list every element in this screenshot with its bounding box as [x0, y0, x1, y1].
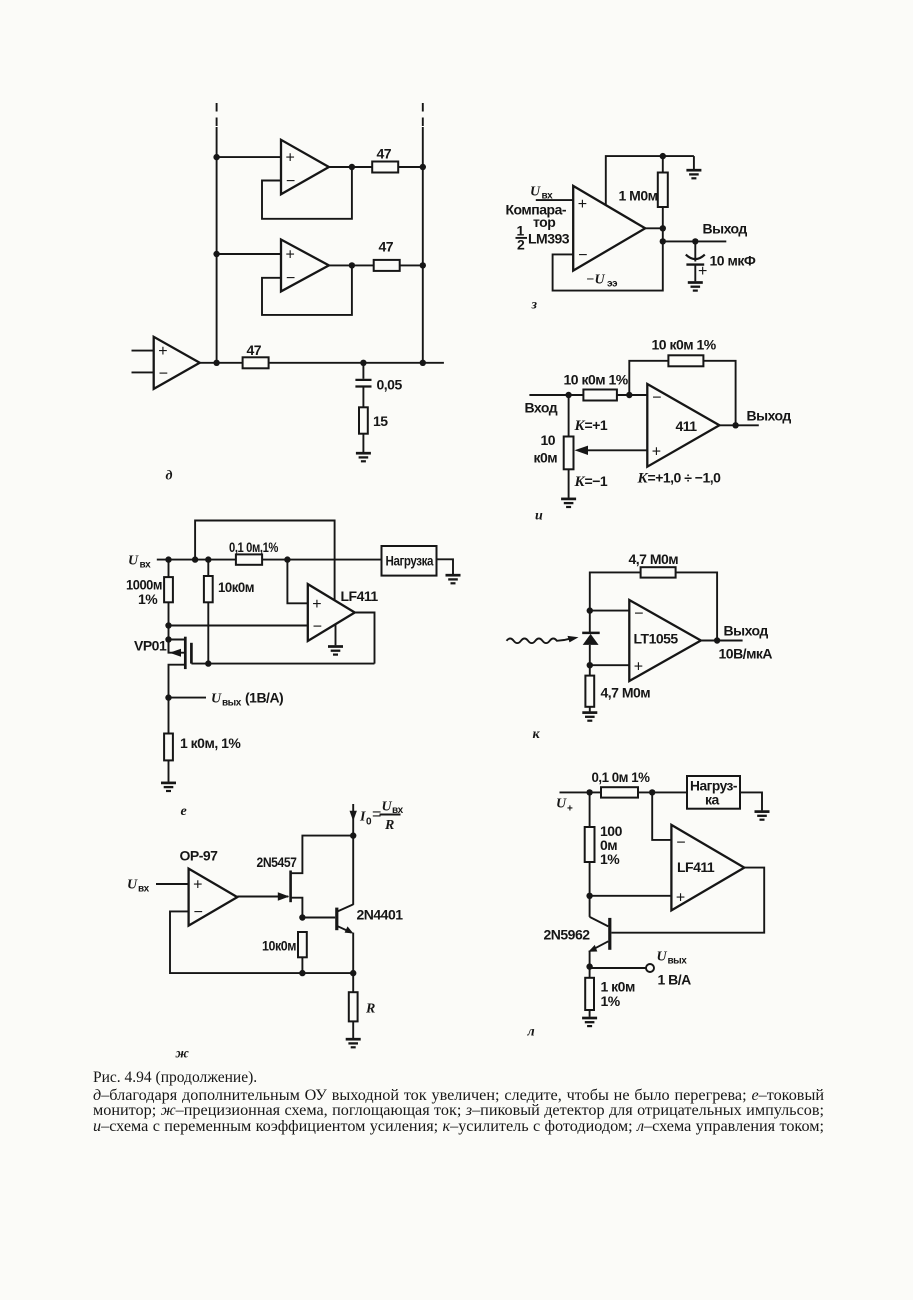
- gate node junction: [205, 660, 211, 666]
- ground: [582, 1018, 597, 1026]
- left bus wire (dashed top): [216, 103, 218, 127]
- svg-text:15: 15: [373, 413, 388, 429]
- wire to potentiometer: [568, 395, 570, 437]
- junction input: [565, 392, 571, 398]
- resistor 1 kOhm 1%: [164, 734, 173, 761]
- wire output to gate: [237, 896, 288, 898]
- svg-text:U: U: [530, 185, 541, 200]
- junction bottom rail: [299, 970, 305, 976]
- load box Nagruz-ka: [687, 776, 740, 809]
- svg-text:+: +: [312, 596, 321, 613]
- resistor 1 kOhm 1%: [585, 978, 594, 1010]
- wire 100 Ohm lead: [168, 560, 170, 578]
- resistor 10k feedback: [668, 355, 703, 366]
- wire plus input: [590, 664, 630, 666]
- svg-text:−: −: [286, 270, 295, 287]
- svg-text:LM393: LM393: [528, 231, 570, 247]
- svg-text:−: −: [286, 173, 295, 190]
- svg-text:47: 47: [379, 238, 394, 254]
- resistor 10 kOhm: [298, 932, 307, 957]
- wire emitter down: [352, 933, 354, 993]
- svg-text:и: и: [535, 509, 543, 524]
- wire emitter down: [589, 951, 591, 978]
- wire output: [701, 640, 743, 642]
- svg-text:−: −: [578, 247, 587, 264]
- wire load to ground: [437, 559, 454, 574]
- junction: [586, 789, 592, 795]
- base bar: [335, 908, 338, 931]
- source lead: [169, 639, 186, 641]
- transistor 2N5457 (JFET): [257, 836, 354, 918]
- wire minus input: [590, 610, 630, 612]
- wire output bus: [269, 362, 444, 364]
- wire feedback loop: [553, 228, 663, 290]
- wire feedback up: [590, 572, 641, 610]
- junction output: [714, 637, 720, 643]
- wire bottom rail: [302, 972, 353, 974]
- junction sense node: [284, 556, 290, 562]
- channel bar: [289, 871, 292, 903]
- resistor 4,7 MOhm lower: [585, 676, 594, 707]
- junction: [660, 153, 666, 159]
- wire Uvyx tap: [590, 967, 646, 969]
- svg-text:вх: вх: [138, 884, 150, 895]
- svg-text:0,1 0м,1%: 0,1 0м,1%: [229, 539, 279, 555]
- wire output feedback to base: [612, 868, 765, 933]
- junction loop tap: [192, 556, 198, 562]
- wire A1 output: [329, 166, 372, 168]
- transistor 2N5962 (NPN mirrored): [544, 917, 610, 952]
- junction anode node: [587, 662, 593, 668]
- ground: [561, 499, 576, 507]
- wire load to ground: [740, 792, 762, 810]
- wire: [362, 387, 364, 408]
- svg-text:U: U: [657, 950, 668, 965]
- svg-text:2N4401: 2N4401: [357, 907, 404, 923]
- svg-text:Нагрузка: Нагрузка: [386, 553, 434, 569]
- junction base node: [299, 914, 305, 920]
- wire feedback: [170, 911, 302, 973]
- light arrow squiggle: [507, 638, 572, 643]
- junction: [349, 262, 355, 268]
- junction 10k tap: [205, 556, 211, 562]
- svg-text:1 к0м, 1%: 1 к0м, 1%: [180, 735, 241, 751]
- svg-text:вых: вых: [668, 956, 688, 967]
- svg-text:Выход: Выход: [724, 623, 769, 639]
- svg-text:10 к0м 1%: 10 к0м 1%: [652, 337, 717, 353]
- gate arrowhead: [278, 892, 290, 900]
- junction node: [360, 360, 366, 366]
- svg-text:−: −: [313, 618, 322, 635]
- wire A1 +input: [217, 156, 281, 158]
- cathode lead: [589, 611, 591, 633]
- wire wiper to +input: [584, 449, 647, 451]
- drain lead: [291, 836, 354, 874]
- left bus wire: [216, 127, 218, 363]
- resistor 0,1 Ohm 1%: [236, 554, 262, 564]
- body lead jog: [169, 640, 186, 653]
- ground: [688, 283, 703, 291]
- svg-text:+: +: [676, 889, 685, 906]
- caption block: [93, 1070, 824, 1135]
- potentiometer 10 kOhm: [564, 437, 574, 470]
- svg-text:10 к0м 1%: 10 к0м 1%: [564, 372, 629, 388]
- junction 100 Ohm tap: [165, 556, 171, 562]
- svg-text:10к0м: 10к0м: [262, 938, 296, 954]
- wire to ground: [352, 1021, 354, 1038]
- emitter arrowhead: [588, 945, 597, 952]
- svg-text:I: I: [359, 810, 366, 825]
- svg-text:к0м: к0м: [534, 450, 558, 466]
- resistor 47 (middle): [374, 260, 400, 271]
- ground: [346, 1039, 361, 1047]
- svg-text:2: 2: [517, 237, 525, 253]
- svg-text:−: −: [159, 365, 168, 382]
- resistor 47 (top): [372, 162, 398, 173]
- op-amp LF411: [308, 584, 355, 641]
- junction plus node: [586, 893, 592, 899]
- collector lead: [337, 904, 353, 911]
- capacitor 0,05: [355, 380, 371, 387]
- op-amp LT1055: [629, 600, 701, 681]
- ground: [582, 713, 597, 721]
- svg-text:+: +: [698, 263, 707, 280]
- wire: [398, 166, 423, 168]
- wire: [638, 791, 687, 793]
- junction emitter node: [586, 963, 592, 969]
- junction: [213, 154, 219, 160]
- wire Uvyx tap: [169, 697, 207, 699]
- wire output: [645, 227, 663, 229]
- wire minus input: [652, 792, 671, 840]
- svg-text:1 В/А: 1 В/А: [658, 972, 692, 988]
- collector lead: [590, 917, 609, 927]
- transistor VP01 (p-MOSFET): [134, 636, 375, 697]
- wiper arrowhead: [575, 446, 589, 455]
- wire to resistor: [589, 665, 591, 675]
- current arrow into rail: [350, 804, 357, 836]
- load box Nagruzka: [382, 546, 437, 576]
- svg-text:10к0м: 10к0м: [218, 579, 254, 595]
- wire rail down: [352, 836, 354, 905]
- svg-text:10: 10: [541, 432, 556, 448]
- svg-text:47: 47: [247, 342, 262, 358]
- junction vyhod node: [660, 238, 666, 244]
- svg-text:+: +: [193, 877, 202, 894]
- gate bar: [190, 643, 193, 664]
- wire: [617, 394, 647, 396]
- junction Uvyx node: [165, 694, 171, 700]
- resistor 10k input: [583, 390, 617, 401]
- op-amp 411: [647, 384, 719, 467]
- resistor 100 Ohm 1%: [585, 827, 595, 862]
- resistor 1 MOhm: [658, 173, 668, 208]
- emitter lead: [591, 941, 609, 950]
- svg-text:U: U: [211, 692, 222, 707]
- svg-text:LT1055: LT1055: [634, 631, 679, 647]
- wire minus input: [169, 625, 308, 627]
- svg-text:LF411: LF411: [341, 588, 379, 604]
- svg-text:2N5962: 2N5962: [544, 927, 591, 943]
- emitter lead: [337, 926, 352, 933]
- svg-text:U: U: [128, 554, 139, 569]
- wire A2 +input: [217, 253, 281, 255]
- emitter arrowhead: [345, 926, 354, 933]
- svg-text:0,05: 0,05: [377, 377, 403, 393]
- junction cap tap: [692, 238, 698, 244]
- svg-text:R: R: [384, 818, 394, 833]
- wire: [400, 264, 423, 266]
- wire top rail: [157, 559, 236, 561]
- wire: [168, 602, 170, 652]
- capacitor 10 mkF (electrolytic): [686, 255, 705, 265]
- junction minus node: [626, 392, 632, 398]
- resistor 10 kOhm: [204, 576, 213, 602]
- wire A3 -input: [132, 371, 154, 373]
- source lead: [291, 898, 303, 918]
- svg-text:д: д: [166, 469, 173, 484]
- junction output: [660, 225, 666, 231]
- resistor 0,1 Ohm 1%: [601, 787, 638, 797]
- svg-text:е: е: [181, 804, 187, 819]
- svg-text:OP-97: OP-97: [180, 848, 219, 864]
- svg-text:Выход: Выход: [703, 221, 748, 237]
- svg-text:R: R: [365, 1002, 375, 1017]
- wire output: [719, 424, 758, 426]
- svg-text:1%: 1%: [601, 993, 621, 1009]
- op-amp comparator LM393: [573, 186, 645, 271]
- wire to ground: [589, 707, 591, 712]
- svg-text:(1В/А): (1В/А): [245, 690, 283, 706]
- wire output to gate: [355, 613, 375, 664]
- wire plus input: [590, 895, 672, 897]
- drain lead: [169, 665, 186, 698]
- right bus wire: [422, 127, 424, 363]
- svg-text:−U: −U: [586, 273, 605, 288]
- svg-text:вх: вх: [140, 560, 152, 571]
- wire A1 feedback loop: [262, 167, 352, 219]
- wire feedback up/over: [629, 361, 668, 395]
- resistor R: [349, 992, 358, 1021]
- wire A3 +input: [132, 350, 154, 352]
- op-amp LF411: [671, 825, 744, 911]
- wire: [662, 156, 664, 172]
- resistor 15: [359, 407, 368, 433]
- right bus wire (dashed top): [422, 103, 424, 127]
- wire to ground: [589, 1010, 591, 1017]
- svg-text:−: −: [194, 904, 203, 921]
- junction: [420, 262, 426, 268]
- wire to capacitor: [362, 363, 364, 379]
- resistor 4,7 MOhm feedback: [641, 567, 676, 577]
- wire top rail: [560, 791, 602, 793]
- svg-text:ээ: ээ: [607, 279, 618, 290]
- wire to 1k: [168, 698, 170, 734]
- ground: [755, 812, 770, 820]
- ground: [328, 647, 343, 655]
- wire 100 Ohm lead: [589, 792, 591, 827]
- junction: [587, 607, 593, 613]
- svg-text:U: U: [556, 797, 567, 812]
- svg-text:47: 47: [377, 146, 392, 162]
- svg-text:10 мкФ: 10 мкФ: [710, 253, 756, 269]
- body arrowhead: [170, 649, 182, 657]
- transistor 2N4401 (NPN): [302, 904, 403, 933]
- wire +input: [287, 560, 307, 604]
- junction: [420, 360, 426, 366]
- svg-text:+: +: [158, 343, 167, 360]
- wire to ground: [168, 760, 170, 781]
- wire feedback down: [676, 572, 718, 640]
- op-amp A1: [281, 140, 329, 195]
- svg-text:+: +: [567, 804, 573, 815]
- svg-text:K=−1: K=−1: [574, 473, 608, 490]
- junction: [349, 164, 355, 170]
- resistor 10 kOhm lead: [207, 560, 209, 576]
- base bar: [608, 918, 611, 950]
- wire input: [156, 883, 189, 885]
- wire +input: [536, 199, 573, 201]
- wire rail to load: [262, 559, 381, 561]
- wire to emitter-collector node: [589, 862, 591, 917]
- wire input: [529, 394, 583, 396]
- cathode bar: [582, 632, 600, 635]
- wire to ground: [693, 156, 695, 169]
- ground: [686, 170, 701, 178]
- wire cap to ground: [694, 265, 696, 282]
- svg-text:−: −: [652, 389, 661, 406]
- svg-text:тор: тор: [533, 214, 555, 230]
- wire supply loop: [195, 521, 335, 601]
- formula I0 = Uvx/R: [359, 800, 404, 834]
- photodiode D1: [582, 611, 600, 666]
- ground: [161, 783, 176, 791]
- svg-text:10В/мкА: 10В/мкА: [719, 646, 773, 662]
- junction minus node: [165, 622, 171, 628]
- svg-text:1%: 1%: [138, 591, 158, 607]
- svg-text:з: з: [531, 298, 538, 313]
- gate lead: [191, 663, 374, 665]
- wire 10k to gate node: [207, 602, 209, 663]
- wire op-amp ground stem: [335, 624, 337, 645]
- svg-text:−: −: [676, 835, 685, 852]
- op-amp OP-97: [189, 869, 238, 926]
- svg-text:U: U: [382, 800, 393, 815]
- svg-text:K=+1,0 ÷ −1,0: K=+1,0 ÷ −1,0: [637, 470, 722, 487]
- junction output: [732, 422, 738, 428]
- channel bar: [184, 637, 187, 669]
- svg-text:вых: вых: [222, 698, 242, 709]
- open terminal circle: [646, 964, 654, 972]
- wire to ground: [362, 434, 364, 452]
- svg-text:+: +: [634, 659, 643, 676]
- junction: [213, 360, 219, 366]
- svg-text:+: +: [652, 443, 661, 460]
- label 1/2 fraction: [516, 223, 528, 253]
- svg-text:1 М0м: 1 М0м: [619, 188, 658, 204]
- op-amp A3: [154, 337, 200, 389]
- resistor 100 Ohm 1%: [164, 577, 173, 602]
- wire cap lead: [694, 241, 696, 261]
- wire: [662, 207, 664, 228]
- svg-text:+: +: [286, 150, 295, 167]
- wire A3 output: [200, 362, 243, 364]
- wire supply riser: [606, 156, 694, 205]
- junction: [420, 164, 426, 170]
- wire A2 feedback loop: [262, 265, 352, 315]
- svg-text:−: −: [634, 605, 643, 622]
- diode body: [583, 634, 599, 645]
- svg-text:к: к: [533, 727, 541, 742]
- svg-text:LF411: LF411: [677, 859, 715, 875]
- wire A2 output: [329, 264, 374, 266]
- ground: [446, 575, 461, 583]
- svg-text:U: U: [127, 878, 138, 893]
- svg-text:K=+1: K=+1: [574, 417, 608, 434]
- svg-text:ж: ж: [176, 1047, 190, 1062]
- op-amp A2: [281, 240, 329, 292]
- svg-text:4,7 М0м: 4,7 М0м: [601, 685, 651, 701]
- junction top rail: [350, 832, 356, 838]
- svg-text:+: +: [286, 247, 295, 264]
- junction: [213, 251, 219, 257]
- svg-text:л: л: [527, 1025, 535, 1040]
- svg-text:Выход: Выход: [747, 408, 792, 424]
- svg-text:1%: 1%: [600, 851, 620, 867]
- wire Vyhod: [663, 240, 727, 242]
- resistor 47 (bottom): [243, 357, 269, 368]
- wire pot to ground: [568, 469, 570, 497]
- light arrowhead: [568, 636, 579, 643]
- wire feedback down: [703, 361, 735, 426]
- anode lead: [589, 645, 591, 665]
- svg-text:Вход: Вход: [525, 400, 558, 416]
- source junction: [165, 636, 171, 642]
- svg-text:ка: ка: [705, 792, 720, 808]
- junction sense node: [649, 789, 655, 795]
- svg-text:411: 411: [676, 418, 698, 434]
- svg-text:VP01: VP01: [134, 638, 167, 654]
- base lead: [302, 917, 335, 919]
- svg-text:4,7 М0м: 4,7 М0м: [629, 551, 679, 567]
- svg-text:0,1 0м 1%: 0,1 0м 1%: [592, 769, 651, 785]
- junction emitter node: [350, 970, 356, 976]
- svg-text:2N5457: 2N5457: [257, 854, 298, 870]
- svg-text:+: +: [578, 196, 587, 213]
- wire 10k to rail: [301, 957, 303, 973]
- ground: [356, 453, 371, 461]
